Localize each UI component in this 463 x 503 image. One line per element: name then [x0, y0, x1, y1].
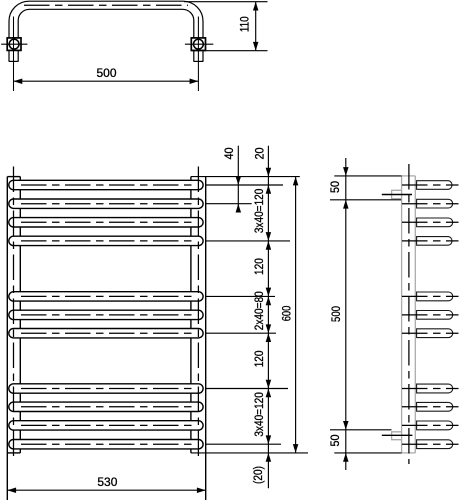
svg-text:20: 20 [254, 147, 267, 159]
towel bar 11 (front view) [9, 440, 203, 449]
towel bar 8 (side view) [402, 384, 459, 393]
towel bar 3 (side view) [402, 218, 459, 227]
svg-text:120: 120 [253, 258, 266, 275]
dimension 530 (overall width) [7, 475, 205, 493]
towel bar 5 (front view) [9, 292, 203, 301]
towel bar 10 (side view) [402, 421, 459, 430]
dimension (20) (bar11 to rail bottom) [252, 453, 271, 484]
towel bar 7 (side view) [402, 329, 459, 338]
right rail top cap + 600 extension line [191, 176, 300, 178]
svg-text:530: 530 [97, 475, 117, 489]
towel bar 9 (side view) [402, 402, 459, 411]
left union fitting [1, 38, 27, 51]
bottom wall bracket (side view) [382, 432, 413, 440]
towel bar 11 (side view) [402, 440, 459, 449]
dimension 50 (top, side view) [330, 158, 349, 470]
towel bar 2 (side view) [402, 199, 459, 208]
dimension 600 (overall height) [281, 177, 299, 453]
right union fitting [185, 38, 213, 51]
front right rail centerline [197, 167, 199, 462]
top wall bracket (side view) [382, 190, 412, 198]
svg-text:50: 50 [330, 181, 343, 193]
svg-text:(20): (20) [252, 466, 265, 484]
front left rail centerline [13, 167, 15, 462]
svg-text:40: 40 [224, 147, 237, 159]
front view left rail outer line (with 530 extension) [6, 177, 8, 500]
towel bar 10 (front view) [9, 421, 203, 430]
svg-text:600: 600 [281, 306, 294, 322]
towel bar 6 (side view) [402, 311, 459, 320]
towel bar 6 (front view) [9, 310, 203, 319]
bar centre extension lines to dimension chain [206, 185, 290, 444]
right leg centerline / extension [197, 17, 199, 92]
dimension 500 (side view) [330, 200, 348, 430]
towel bar 1 (front view) [9, 180, 203, 189]
svg-text:3x40=120: 3x40=120 [253, 392, 266, 437]
top view U-tube outer contour [9, 1, 203, 62]
towel bar 7 (front view) [9, 329, 203, 338]
towel bar 5 (side view) [402, 292, 459, 301]
side view rail top cap [402, 175, 416, 177]
towel bar 2 (front view) [9, 199, 203, 208]
svg-text:110: 110 [239, 16, 252, 32]
side rail centerline [408, 164, 410, 464]
left tube end cap [9, 60, 18, 62]
dimension 120 (lower gap) [253, 333, 271, 388]
right tube end cap [194, 60, 203, 62]
svg-text:3x40=120: 3x40=120 [253, 189, 266, 234]
towel bar 4 (front view) [9, 236, 203, 245]
svg-text:500: 500 [96, 66, 116, 80]
top tube axis centerline [24, 4, 188, 6]
towel bar 4 (side view) [402, 237, 459, 246]
towel bar 3 (front view) [9, 218, 203, 227]
dimension 120 (upper gap) [253, 241, 271, 297]
right rail bottom cap + 600 extension line [191, 452, 308, 454]
left rail bottom cap [7, 452, 20, 454]
towel bar 9 (front view) [9, 402, 203, 411]
side view rail right edge [414, 176, 416, 453]
dimension 2x40=80 (middle group) [253, 291, 271, 333]
dimension 20 (rail top to bar1) [254, 146, 271, 489]
side view extension lines [330, 176, 402, 453]
dimension 50 (bottom, side view) [330, 434, 349, 461]
svg-text:2x40=80: 2x40=80 [253, 291, 266, 330]
towel bar 8 (front view) [9, 384, 203, 393]
dimension 3x40=120 (lower group) [253, 389, 271, 445]
dimension 40 (top bar pitch) [224, 146, 241, 213]
side view rail bottom cap [402, 452, 416, 454]
dimension 110 (top view) [184, 2, 268, 51]
svg-text:120: 120 [253, 350, 266, 367]
towel bar 1 (side view) [402, 181, 459, 190]
left rail top cap [7, 176, 20, 178]
top view U-tube inner contour [18, 9, 194, 62]
dimension 500 (top view) [14, 66, 199, 84]
svg-text:50: 50 [330, 434, 343, 446]
svg-text:500: 500 [330, 306, 343, 322]
side view rail left edge [401, 176, 403, 453]
front view right rail outer line (with 530 extension) [205, 177, 207, 500]
dimension 3x40=120 (upper group) [253, 189, 271, 241]
front view right rail inner line segments [190, 177, 192, 453]
left leg centerline / extension [13, 17, 15, 92]
front view left rail inner line segments [19, 177, 21, 453]
